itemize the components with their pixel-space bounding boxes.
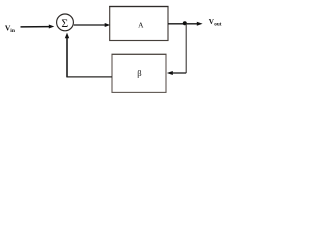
svg-text:out: out — [214, 22, 221, 28]
svg-text:β: β — [137, 68, 141, 78]
svg-text:Σ: Σ — [61, 17, 68, 30]
svg-text:A: A — [138, 20, 144, 29]
